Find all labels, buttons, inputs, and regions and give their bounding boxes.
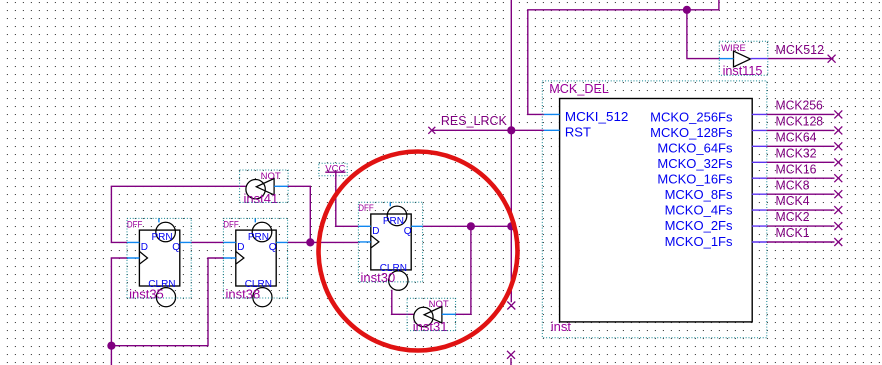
wire MCKO_128Fs to MCK128 <box>767 129 835 131</box>
no-connect marker MCK128 <box>834 126 842 134</box>
svg-text:DFF: DFF <box>223 219 239 230</box>
svg-text:Q: Q <box>269 242 277 253</box>
no-connect marker MCK4 <box>834 206 842 214</box>
svg-text:MCK8: MCK8 <box>776 177 810 192</box>
svg-text:MCKO_8Fs: MCKO_8Fs <box>665 187 733 202</box>
annotation red circle highlight <box>319 152 518 351</box>
wire inst38 Q to inst30 clock <box>288 241 359 243</box>
svg-text:MCK1: MCK1 <box>776 225 810 240</box>
wire MCKO_1Fs to MCK1 <box>767 241 835 243</box>
block MCK_DEL inst <box>542 81 767 338</box>
svg-text:MCK512: MCK512 <box>776 42 825 57</box>
no-connect marker MCK512 wire end <box>828 55 836 63</box>
wire stub entering from bottom edge <box>510 358 512 365</box>
svg-text:MCK32: MCK32 <box>776 145 817 160</box>
svg-text:MCKO_64Fs: MCKO_64Fs <box>657 141 733 156</box>
no-connect marker MCK32 <box>834 158 842 166</box>
pin stub MCKI_512 <box>544 113 560 115</box>
svg-text:MCK16: MCK16 <box>776 161 817 176</box>
svg-text:MCKO_128Fs: MCKO_128Fs <box>650 125 733 140</box>
wire vertical RES_LRCK net from top edge <box>510 0 512 302</box>
svg-text:DFF: DFF <box>127 219 143 230</box>
svg-text:MCK128: MCK128 <box>776 114 824 129</box>
svg-text:MCK_DEL: MCK_DEL <box>549 81 609 96</box>
wire RES_LRCK to RST pin <box>432 129 544 131</box>
wire VCC to inst30 D <box>336 172 359 226</box>
wire branch from top net down to buffer inst115 input <box>687 10 719 59</box>
svg-text:inst115: inst115 <box>723 63 763 78</box>
wire clock net branch to inst35 clock <box>111 258 127 346</box>
inverter NOT inst31 <box>407 298 456 334</box>
inverter NOT inst41 <box>240 170 289 206</box>
junction on top net <box>683 6 691 14</box>
svg-text:MCKO_16Fs: MCKO_16Fs <box>657 172 733 187</box>
svg-text:PRN: PRN <box>152 232 173 243</box>
svg-text:D: D <box>237 242 244 253</box>
wire inst35 Q to inst38 D <box>191 241 223 243</box>
svg-text:Q: Q <box>404 226 412 237</box>
svg-text:RES_LRCK: RES_LRCK <box>441 113 507 128</box>
svg-text:PRN: PRN <box>248 232 269 243</box>
svg-text:PRN: PRN <box>383 216 404 227</box>
no-connect marker MCK2 <box>834 222 842 230</box>
svg-text:NOT: NOT <box>429 299 449 310</box>
wire MCKO_16Fs to MCK16 <box>767 177 835 179</box>
no-connect marker RES_LRCK left end <box>428 127 435 134</box>
wire clock net from bottom edge to inst38 clock <box>111 258 223 365</box>
wire NOT inst41 output to inst35 D <box>111 186 246 242</box>
flip-flop DFF inst35 <box>127 218 191 306</box>
junction clock net <box>107 342 115 350</box>
svg-text:inst35: inst35 <box>129 287 164 302</box>
junction vertical net with inst30 Q wire <box>507 222 515 230</box>
no-connect marker MCK256 <box>834 110 842 118</box>
svg-text:MCK64: MCK64 <box>776 129 817 144</box>
wire branch from inst30 Q down to NOT inst31 input <box>456 226 471 314</box>
pin stub RST <box>544 129 560 131</box>
no-connect marker MCK1 <box>834 238 842 246</box>
wire MCKI_512 feed from top edge <box>528 0 719 114</box>
wire branch from inst38 Q up to NOT inst41 input <box>288 186 311 242</box>
wire MCKO_32Fs to MCK32 <box>767 161 835 163</box>
no-connect marker at lower end of vertical net <box>507 302 515 310</box>
junction inst38 Q net <box>306 238 314 246</box>
power symbol VCC <box>319 163 347 176</box>
svg-text:inst: inst <box>551 319 572 334</box>
svg-text:MCKO_32Fs: MCKO_32Fs <box>657 156 733 171</box>
wire MCKO_4Fs to MCK4 <box>767 209 835 211</box>
svg-text:MCKO_256Fs: MCKO_256Fs <box>650 110 733 125</box>
wire inst30 Q to vertical net <box>423 225 512 227</box>
svg-text:D: D <box>141 242 148 253</box>
svg-text:D: D <box>372 226 379 237</box>
svg-text:MCKO_1Fs: MCKO_1Fs <box>665 234 733 249</box>
no-connect marker MCK16 <box>834 174 842 182</box>
svg-text:Q: Q <box>172 242 180 253</box>
svg-text:MCKI_512: MCKI_512 <box>565 109 629 124</box>
flip-flop DFF inst30 <box>358 202 422 290</box>
flip-flop DFF inst38 <box>223 218 287 306</box>
buffer WIRE inst115 <box>719 41 768 78</box>
wire buffer output to MCK512 <box>768 58 834 60</box>
svg-text:WIRE: WIRE <box>721 43 746 54</box>
svg-text:inst38: inst38 <box>226 287 261 302</box>
no-connect marker bottom stub <box>507 351 515 359</box>
svg-text:inst31: inst31 <box>413 319 448 334</box>
svg-text:MCKO_2Fs: MCKO_2Fs <box>665 218 733 233</box>
wire MCKO_64Fs to MCK64 <box>767 145 835 147</box>
svg-text:RST: RST <box>565 125 591 140</box>
no-connect marker MCK8 <box>834 190 842 198</box>
svg-text:MCKO_4Fs: MCKO_4Fs <box>665 203 733 218</box>
svg-text:inst30: inst30 <box>361 270 396 285</box>
svg-text:inst41: inst41 <box>244 191 279 206</box>
junction RES_LRCK at vertical net <box>507 126 515 134</box>
svg-text:MCK2: MCK2 <box>776 209 810 224</box>
wire MCKO_2Fs to MCK2 <box>767 225 835 227</box>
pin stubs MCKO outputs <box>752 114 767 242</box>
wire NOT inst31 output to inst30 CLRN <box>392 290 414 315</box>
svg-text:MCK256: MCK256 <box>776 98 823 113</box>
wire MCKO_8Fs to MCK8 <box>767 193 835 195</box>
svg-text:MCK4: MCK4 <box>776 193 810 208</box>
svg-text:NOT: NOT <box>261 171 281 182</box>
junction inst30 Q net <box>467 222 475 230</box>
no-connect marker MCK64 <box>834 142 842 150</box>
wire MCKO_256Fs to MCK256 <box>767 113 835 115</box>
svg-text:DFF: DFF <box>358 203 374 214</box>
